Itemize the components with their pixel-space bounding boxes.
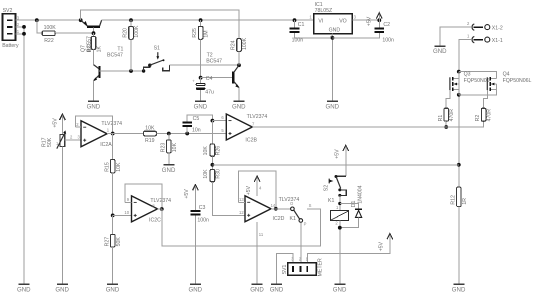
wire IC2A output to R19: [107, 133, 143, 135]
power +5V arrow to S2: [335, 145, 349, 176]
wire battery pin3 to rail: [15, 19, 80, 21]
svg-text:R26: R26: [215, 146, 221, 156]
node R1 bottom / gate drive line: [444, 125, 448, 129]
power +5V arrow at R17: [52, 114, 65, 134]
wire IC2D output to relay contact O: [271, 208, 291, 210]
wire shunt sense line to R12: [212, 164, 458, 166]
wire IC2A feedback loop: [75, 126, 81, 128]
wire IC1 VO to +5V: [352, 19, 379, 21]
power +5V arrow at C3: [184, 185, 198, 211]
relay coil K1: [328, 198, 349, 226]
svg-text:GND: GND: [194, 104, 208, 111]
node battery minus pin2: [22, 25, 26, 29]
svg-text:+5V: +5V: [184, 189, 190, 199]
svg-text:+5V: +5V: [52, 118, 58, 128]
wire IC2C feedback loop: [125, 201, 131, 203]
svg-text:IC2D: IC2D: [273, 216, 285, 222]
wire into IC2C plus input: [113, 214, 132, 216]
power +5V arrow at C2: [367, 13, 383, 26]
svg-text:100K: 100K: [242, 37, 248, 50]
ground C3: [189, 283, 203, 293]
node R20 bottom / T1 base: [129, 69, 133, 73]
svg-text:GND: GND: [189, 287, 203, 294]
svg-text:GND: GND: [232, 104, 246, 111]
svg-text:50K: 50K: [116, 237, 122, 247]
resistor R25 1M: [192, 20, 209, 77]
node IC2B minus / C5 / R26: [211, 119, 215, 123]
resistor R26 10K: [203, 121, 222, 170]
node R25 / C4 / T2 base: [199, 76, 203, 80]
wire S1 to T2 collector node: [170, 64, 239, 66]
svg-text:IC2B: IC2B: [245, 137, 257, 143]
svg-text:50K: 50K: [47, 137, 53, 147]
svg-text:SV1: SV1: [282, 264, 288, 274]
ground C4: [194, 101, 208, 111]
svg-text:GND: GND: [106, 287, 120, 294]
diode D1 1N4004: [340, 185, 364, 227]
svg-text:K1: K1: [328, 198, 334, 204]
svg-text:78L05Z: 78L05Z: [315, 8, 333, 14]
ground R12: [452, 283, 466, 293]
power +5V arrow IC2D pin 4: [246, 176, 262, 196]
switched rail Q7 collector to IC1 VI: [102, 19, 314, 21]
wire R22 right lead to Q7 base: [55, 32, 93, 34]
wire IC2C output to relay contact S: [158, 208, 162, 210]
svg-text:K1: K1: [290, 216, 296, 222]
wire X1-2 to ground: [440, 27, 471, 45]
node MOSFET drains: [457, 70, 461, 74]
transistor T2 BC547: [206, 52, 239, 100]
svg-text:R25: R25: [192, 28, 198, 38]
ground T2 emitter: [232, 101, 246, 111]
svg-text:R12: R12: [450, 195, 456, 205]
node R24 / T2 collector / S1 wire: [237, 63, 241, 67]
wire battery top bypass rail: [81, 10, 239, 39]
resistor R2 470R: [475, 108, 492, 121]
wire IC2B output gate drive line: [252, 126, 446, 128]
node IC2A output: [111, 132, 115, 136]
svg-text:X1-2: X1-2: [492, 26, 503, 32]
node battery minus pin1: [22, 32, 26, 36]
svg-text:GND: GND: [452, 287, 466, 294]
wire into IC2B minus input: [212, 120, 226, 122]
svg-text:X1-1: X1-1: [492, 38, 503, 44]
svg-text:+5V: +5V: [246, 185, 252, 195]
resistor R24 100K: [231, 37, 248, 65]
svg-text:R20: R20: [123, 28, 129, 38]
svg-text:SV2: SV2: [3, 8, 13, 14]
ground IC2D pin 11: [250, 283, 264, 293]
connector pin X1-2: [467, 21, 503, 32]
node rail / R20 top: [129, 18, 133, 22]
ground IC1: [326, 101, 340, 111]
ground R27: [106, 283, 120, 293]
op-amp IC2C TLV2374: [124, 196, 171, 224]
relay contact K1: [290, 201, 321, 226]
transistor Q3 FQP50N06: [446, 72, 489, 109]
svg-text:T1: T1: [117, 46, 123, 52]
wire drain link Q3-Q4: [459, 72, 497, 79]
svg-text:GND: GND: [270, 287, 284, 294]
resistor R27 10K: [104, 215, 121, 283]
svg-text:IC2C: IC2C: [149, 217, 161, 223]
node R19 / R23: [167, 132, 171, 136]
svg-text:470R: 470R: [449, 109, 455, 122]
svg-text:47u: 47u: [205, 90, 214, 96]
svg-text:C2: C2: [383, 22, 390, 28]
op-amp IC2D TLV2374: [239, 196, 299, 222]
wire gate line R1 to R2: [446, 121, 483, 127]
resistor R12 1R: [450, 187, 468, 283]
ground SV1: [270, 283, 284, 293]
resistor R23 10K: [161, 134, 178, 165]
svg-text:D1: D1: [351, 200, 357, 207]
wire SV1 pin3 to ground: [277, 253, 293, 283]
node IC2D output: [274, 207, 278, 211]
svg-text:GND: GND: [55, 287, 69, 294]
connector SV1 METER: [282, 256, 323, 276]
svg-text:R30: R30: [215, 169, 221, 179]
svg-text:R22: R22: [44, 38, 54, 44]
svg-text:Q4: Q4: [503, 72, 510, 78]
svg-text:S: S: [309, 203, 312, 208]
wire IC1 GND pin: [332, 34, 334, 101]
svg-text:GND: GND: [433, 48, 447, 55]
svg-text:R24: R24: [231, 40, 237, 50]
node K1 coil / D1 anode: [338, 226, 342, 230]
svg-text:R2: R2: [475, 115, 481, 122]
svg-text:S2: S2: [323, 185, 329, 191]
svg-text:T2: T2: [207, 52, 213, 58]
svg-text:GND: GND: [162, 167, 176, 174]
svg-text:100n: 100n: [382, 37, 394, 43]
wire T2 base: [201, 77, 233, 79]
capacitor C5 10n: [182, 115, 212, 134]
svg-text:+5V: +5V: [379, 241, 385, 251]
node IC2C output: [160, 207, 164, 211]
node R26 / R30 / shunt sense line: [211, 163, 215, 167]
node S2 / K1 coil / D1: [338, 202, 341, 205]
resistor R21 1K: [87, 33, 103, 64]
svg-text:10n: 10n: [192, 128, 201, 134]
svg-text:P: P: [304, 222, 307, 227]
wire battery pins 2,1 to ground rail: [15, 26, 24, 28]
transistor Q4 FQP50N06L: [484, 72, 532, 109]
ground T1 emitter: [87, 101, 101, 111]
wire R19 to IC2B plus input: [156, 133, 226, 135]
resistor R20 100K: [123, 20, 140, 71]
node rail / R25 top: [199, 18, 203, 22]
wire T1 base line: [99, 70, 144, 72]
resistor R19 10K: [143, 126, 156, 144]
svg-text:R23: R23: [161, 143, 167, 153]
svg-text:VI: VI: [318, 18, 323, 24]
svg-text:S1: S1: [154, 46, 160, 52]
svg-text:1M: 1M: [204, 30, 210, 37]
connector pin X1-1: [467, 33, 503, 44]
svg-text:100K: 100K: [134, 25, 140, 38]
svg-text:100K: 100K: [44, 25, 57, 31]
svg-text:Battery: Battery: [2, 43, 19, 49]
svg-text:10K: 10K: [172, 142, 178, 152]
svg-text:BC547: BC547: [107, 53, 123, 59]
svg-text:GND: GND: [326, 104, 340, 111]
ground R23: [162, 164, 176, 174]
svg-text:METER: METER: [317, 258, 323, 276]
svg-text:R19: R19: [145, 138, 155, 144]
svg-text:1K: 1K: [97, 46, 103, 53]
svg-text:C1: C1: [298, 22, 305, 28]
wire source link Q3-Q4: [459, 89, 497, 94]
svg-text:12: 12: [239, 210, 244, 215]
ground K1: [333, 283, 347, 293]
node Q7 base / R22 / R21: [92, 31, 96, 35]
svg-text:IC2A: IC2A: [100, 142, 112, 148]
wire relay pole to SV1 pin 2: [300, 222, 302, 262]
svg-text:FQP50N06: FQP50N06: [464, 78, 490, 84]
svg-text:R15: R15: [104, 162, 110, 172]
wire IC2D feedback loop: [239, 201, 245, 203]
svg-text:10K: 10K: [145, 126, 155, 132]
svg-text:1N4004: 1N4004: [358, 185, 364, 203]
svg-text:10K: 10K: [203, 169, 209, 179]
node shunt line / R12 top: [457, 163, 461, 167]
wire IC2D gnd pin 11: [257, 222, 264, 284]
node top rail / Q7 emitter: [79, 18, 83, 22]
switch S1: [142, 46, 170, 73]
capacitor C1 100n: [290, 20, 333, 43]
capacitor C3 100n: [191, 205, 209, 284]
svg-text:+5V: +5V: [367, 16, 373, 26]
wire R22 left lead: [37, 20, 42, 33]
node battery plus / R22 tap: [35, 18, 39, 22]
svg-text:C5: C5: [193, 116, 200, 122]
svg-text:R27: R27: [104, 237, 110, 247]
capacitor C2 100n: [333, 20, 395, 43]
svg-text:11: 11: [259, 232, 264, 237]
svg-text:GND: GND: [250, 287, 264, 294]
wire X1-1 down the main drain rail: [459, 40, 471, 188]
svg-text:TLV2374: TLV2374: [101, 121, 122, 127]
node VO / C2 / +5V: [377, 18, 381, 22]
op-amp IC2B TLV2374: [221, 114, 267, 143]
resistor R22 100K: [42, 25, 56, 44]
wire K1 coil to ground: [339, 221, 341, 284]
svg-text:BC547: BC547: [206, 59, 222, 65]
node MOSFET sources: [457, 93, 461, 97]
node rail / C1 top: [293, 18, 297, 22]
svg-text:+5V: +5V: [335, 149, 341, 159]
ground battery: [17, 283, 31, 293]
svg-text:13: 13: [239, 197, 244, 202]
svg-text:TLV2374: TLV2374: [247, 114, 268, 120]
svg-text:Q3: Q3: [464, 72, 471, 78]
svg-text:10: 10: [124, 210, 129, 215]
power +5V arrow meter supply: [307, 234, 392, 263]
ground R17: [55, 283, 69, 293]
switch S2: [323, 175, 346, 211]
svg-text:GND: GND: [17, 287, 31, 294]
node C5 bottom: [185, 132, 189, 136]
svg-text:GND: GND: [87, 104, 101, 111]
svg-text:R21: R21: [87, 43, 93, 53]
capacitor C4 47u: [192, 76, 214, 101]
ground X1-2: [433, 45, 447, 55]
op-amp IC2A TLV2374: [76, 121, 122, 149]
svg-text:C4: C4: [206, 76, 213, 82]
node IC1 gnd / C1 / C2: [331, 36, 335, 40]
svg-text:1R: 1R: [462, 198, 468, 205]
svg-text:TLV2374: TLV2374: [279, 197, 300, 203]
resistor R30 10K: [203, 169, 245, 215]
svg-text:10K: 10K: [116, 162, 122, 172]
svg-text:10K: 10K: [203, 146, 209, 156]
transistor T1 BC547: [93, 46, 123, 100]
potentiometer R17 50K: [42, 130, 81, 283]
connector SV2 Battery: [2, 8, 20, 49]
svg-text:100n: 100n: [292, 37, 304, 43]
svg-text:100n: 100n: [197, 218, 209, 224]
svg-text:470R: 470R: [487, 109, 493, 122]
transistor Q7 BC557: [81, 20, 102, 52]
svg-text:VO: VO: [339, 18, 347, 24]
svg-text:FQP50N06L: FQP50N06L: [503, 78, 532, 84]
svg-text:GND: GND: [333, 287, 347, 294]
voltage regulator IC1 78L05Z: [309, 2, 356, 38]
svg-text:R1: R1: [438, 115, 444, 122]
svg-text:C3: C3: [199, 205, 206, 211]
node R15 / R27 / IC2C plus: [111, 214, 115, 218]
resistor R1 470R: [438, 108, 455, 127]
resistor R15 10K: [104, 134, 121, 216]
